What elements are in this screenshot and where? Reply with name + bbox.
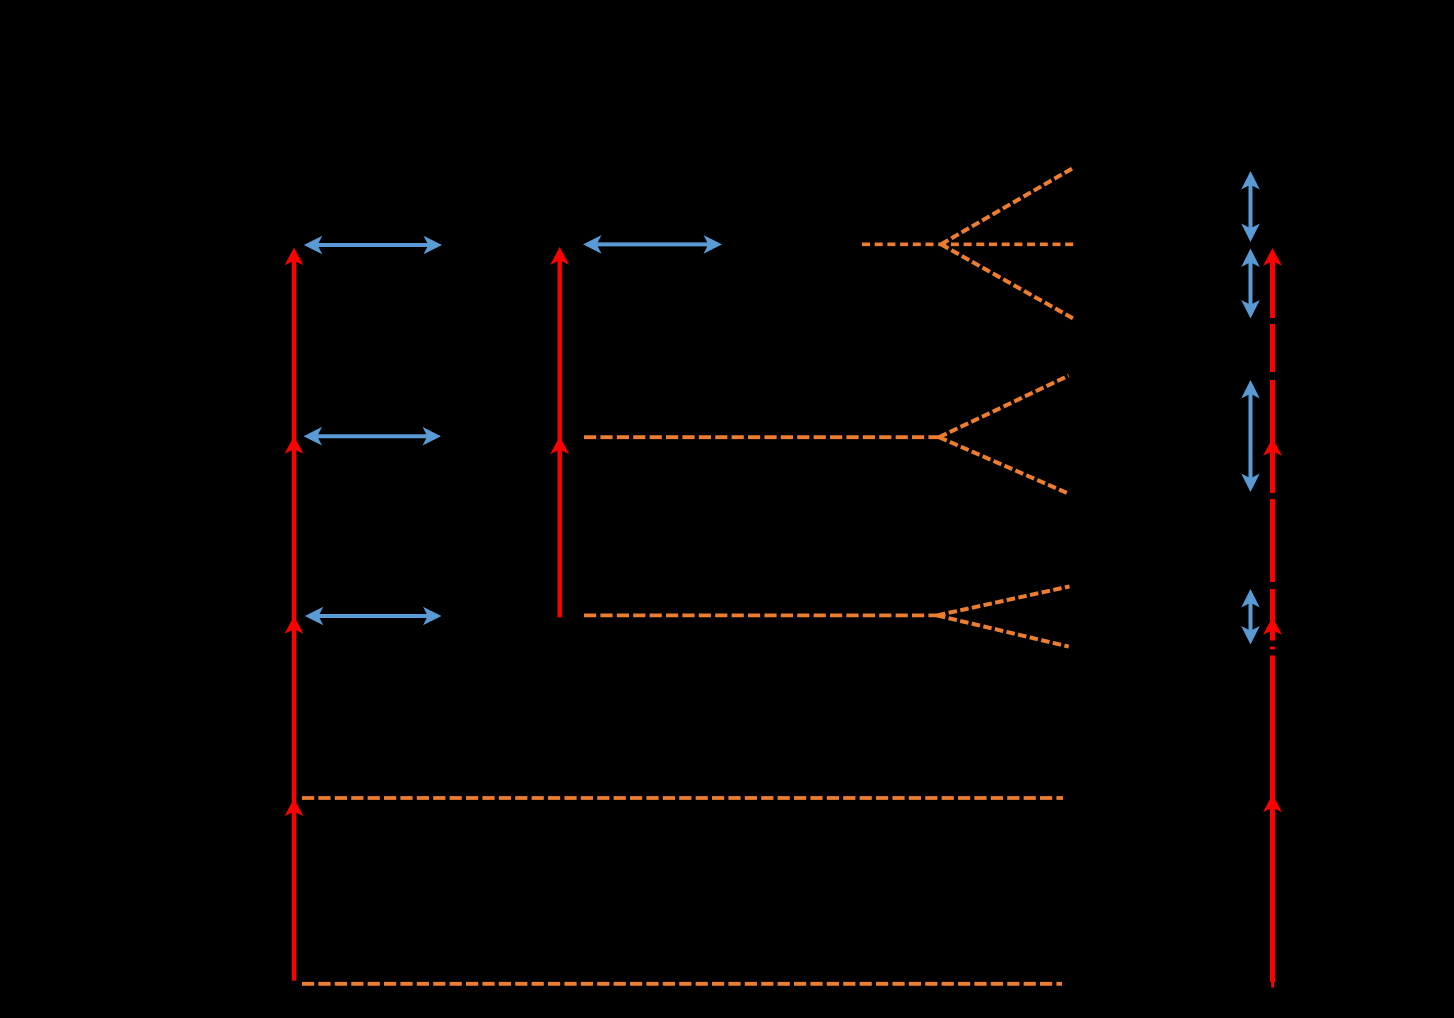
orange fork 2 lower diagonal: [939, 437, 1069, 494]
blue double arrow R1: [1249, 185, 1253, 229]
orange level 5 (ground): [302, 982, 1062, 986]
red arrow right seg1 (bottom solid): [1270, 808, 1275, 983]
red arrow left seg4 (top): [292, 261, 296, 444]
blue double arrow R3: [1249, 394, 1253, 479]
orange fork 1 upper diagonal: [941, 168, 1073, 244]
red arrow right seg4 (dashed top): [1270, 261, 1275, 446]
blue double arrow R2: [1249, 262, 1253, 305]
red arrow left seg1 (bottom): [292, 812, 296, 981]
red arrow mid seg1: [558, 449, 562, 617]
red arrow left seg2: [292, 629, 296, 806]
red arrow mid seg2: [558, 260, 562, 444]
blue double arrow L2: [317, 434, 427, 438]
blue double arrow L1: [318, 243, 429, 247]
orange level 4: [302, 796, 1063, 800]
orange level 2 horizontal: [584, 435, 939, 439]
blue double arrow mid: [597, 242, 709, 246]
orange level 1 horizontal: [862, 242, 1074, 246]
orange level 3 horizontal: [584, 614, 937, 618]
blue double arrow L3: [319, 614, 428, 618]
red arrow left seg3: [292, 449, 296, 624]
red arrow right seg3 (dashed): [1270, 451, 1275, 625]
orange fork 3 upper diagonal: [937, 586, 1070, 615]
orange fork 2 upper diagonal: [939, 376, 1069, 438]
blue double arrow R4: [1249, 603, 1253, 631]
orange dashed levels: [862, 168, 1074, 318]
orange fork 3 lower diagonal: [937, 615, 1069, 646]
red arrow right seg2 (solid w/ small gap): [1270, 630, 1275, 802]
red arrow right tail tick: [1271, 981, 1274, 988]
orange fork 1 lower diagonal: [941, 244, 1073, 318]
